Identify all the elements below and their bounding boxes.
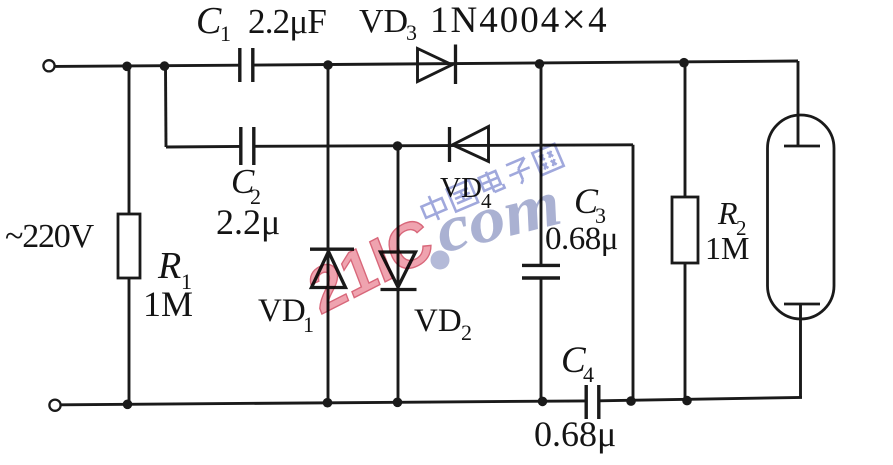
svg-text:2.2μ: 2.2μ <box>216 202 280 242</box>
wire top rail left segment <box>56 65 240 66</box>
node bottom rail R1 <box>123 400 133 410</box>
svg-text:4: 4 <box>583 362 594 387</box>
terminal top-left <box>43 60 54 71</box>
diode VD3 triangle <box>418 49 453 82</box>
lamp top electrode <box>784 145 820 148</box>
watermark 21IC <box>300 143 568 328</box>
wire R1 top lead <box>128 66 131 214</box>
svg-text:1N4004×4: 1N4004×4 <box>430 0 609 44</box>
capacitor C3 plates <box>522 264 560 267</box>
node bottom rail x633 <box>626 396 636 406</box>
wire R2 top lead <box>684 62 687 197</box>
diode VD1 triangle <box>312 252 346 288</box>
svg-text:3: 3 <box>406 20 417 45</box>
svg-text:1M: 1M <box>705 230 749 266</box>
node top rail C3 <box>535 59 545 69</box>
lamp tube <box>768 115 835 319</box>
wire connector top rail to second rail <box>164 66 167 147</box>
node bottom rail VD1 <box>323 398 333 408</box>
node top rail R2 <box>679 58 689 68</box>
char zhong <box>419 192 449 225</box>
diode VD3 cathode bar <box>454 45 457 85</box>
svg-text:VD: VD <box>414 303 462 339</box>
svg-text:2.2μF: 2.2μF <box>248 2 326 41</box>
svg-text:R: R <box>717 195 738 231</box>
char wang <box>532 144 563 175</box>
svg-text:0.68μ: 0.68μ <box>534 414 616 454</box>
node bottom rail R2 <box>682 396 692 406</box>
wire C3 branch lower <box>540 279 543 402</box>
svg-text:1: 1 <box>220 21 231 46</box>
svg-text:1: 1 <box>303 312 314 337</box>
char zi <box>505 157 534 187</box>
watermark chinese <box>419 143 564 224</box>
diode VD4 cathode bar <box>448 127 451 162</box>
wire mid-branch x633 <box>632 145 635 401</box>
node top rail VD1 <box>323 60 333 70</box>
wire top rail right segment <box>253 61 799 65</box>
diode VD2 cathode bar <box>381 288 417 291</box>
node bottom rail C3 <box>538 397 548 407</box>
svg-text:~220V: ~220V <box>5 218 95 255</box>
wire R2 bottom lead <box>684 263 687 401</box>
resistor R1 <box>118 214 140 278</box>
lamp bottom electrode <box>784 303 820 306</box>
capacitor C1 plates <box>238 48 241 82</box>
char guo <box>447 180 478 211</box>
capacitor C2 plates <box>239 127 242 165</box>
watermark dot <box>431 251 450 270</box>
node top rail connector <box>160 61 170 71</box>
wire bottom rail left segment <box>61 401 586 405</box>
wire second rail right segment <box>254 145 634 147</box>
svg-text:VD: VD <box>359 3 408 40</box>
svg-text:2: 2 <box>461 320 472 345</box>
wire VD2 branch <box>397 146 400 402</box>
wire R1 bottom lead <box>128 278 131 404</box>
char dian <box>478 167 505 195</box>
svg-text:1M: 1M <box>143 284 193 324</box>
svg-text:VD: VD <box>258 293 306 329</box>
svg-text:C: C <box>196 0 222 42</box>
diode VD4 triangle <box>453 127 489 162</box>
wire bottom rail right segment <box>599 397 803 400</box>
svg-text:R: R <box>157 245 181 287</box>
capacitor C4 plates <box>585 385 588 419</box>
node bottom rail VD2 <box>393 398 403 408</box>
resistor R2 <box>672 197 698 263</box>
wire second rail left segment <box>166 145 241 149</box>
terminal bottom-left <box>49 400 60 411</box>
diode VD2 triangle <box>381 252 416 287</box>
node top rail R1 <box>122 62 132 72</box>
wire top-right drop to lamp <box>797 61 800 146</box>
wire C3 branch upper <box>540 64 543 265</box>
wire bottom-right rise to lamp <box>799 304 802 398</box>
diode VD1 cathode bar <box>310 248 354 251</box>
wire VD1 branch <box>327 66 330 403</box>
node second rail VD2 <box>393 141 403 151</box>
